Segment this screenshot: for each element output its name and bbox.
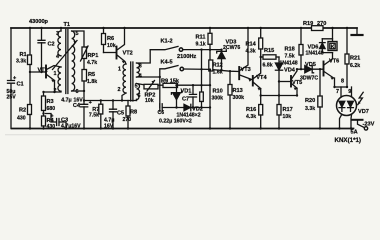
wire VT2 base	[104, 52, 116, 54]
resistor R3	[43, 92, 45, 96]
svg-text:R21: R21	[350, 56, 360, 62]
svg-text:VD7: VD7	[358, 109, 369, 115]
diode VD4	[278, 57, 280, 96]
svg-text:R15: R15	[264, 48, 274, 54]
wire T1 sec bottom	[72, 90, 84, 92]
transformer T1 right winding	[72, 31, 75, 91]
resistor R11 column	[209, 28, 211, 33]
transistor VT5	[290, 76, 292, 87]
top rail	[11, 27, 357, 29]
resistor R14	[260, 28, 262, 38]
svg-text:R6: R6	[107, 36, 114, 42]
resistor R17	[278, 96, 280, 105]
transformer T1 left upper winding	[60, 28, 62, 31]
terminal -23V	[364, 127, 367, 130]
svg-text:7.5k: 7.5k	[89, 113, 99, 119]
capacitor C5	[112, 101, 114, 129]
svg-text:R10: R10	[213, 89, 223, 95]
transistor VT4	[252, 76, 254, 86]
zener VD3	[221, 50, 223, 71]
svg-text:270: 270	[317, 21, 326, 27]
svg-text:VD1: VD1	[181, 89, 192, 95]
transistor VT2	[116, 47, 118, 59]
svg-text:2: 2	[118, 87, 121, 93]
terminal top right	[356, 28, 358, 34]
svg-text:R17: R17	[283, 107, 293, 113]
svg-text:6: 6	[76, 89, 79, 95]
svg-text:KNX(1*1): KNX(1*1)	[335, 137, 361, 144]
svg-text:R2: R2	[19, 108, 26, 114]
svg-text:R13: R13	[233, 88, 243, 94]
resistor R10	[201, 50, 203, 92]
svg-text:0.22μ 160V×2: 0.22μ 160V×2	[159, 118, 192, 124]
svg-text:3.3k: 3.3k	[16, 59, 26, 65]
svg-text:6: 6	[138, 93, 141, 99]
resistor R2	[29, 72, 31, 105]
svg-text:C5: C5	[117, 111, 124, 117]
transformer T1 left lower winding	[58, 67, 61, 91]
capacitor C1	[8, 81, 15, 84]
svg-text:4: 4	[56, 54, 59, 60]
svg-text:C2: C2	[48, 42, 55, 48]
diode VD6	[321, 39, 323, 53]
resistor R5	[82, 70, 87, 82]
transformer T2 lower secondary	[137, 84, 140, 100]
svg-text:9.1k: 9.1k	[196, 42, 206, 48]
svg-text:1: 1	[54, 71, 57, 77]
svg-text:3: 3	[56, 31, 59, 37]
svg-text:-23V: -23V	[363, 122, 375, 128]
transistor VT1	[45, 66, 47, 78]
svg-text:1N4148: 1N4148	[306, 51, 324, 57]
resistor R20	[319, 69, 321, 96]
bottom rail	[12, 128, 354, 130]
svg-text:+: +	[89, 100, 92, 106]
transformer T1 core	[66, 30, 68, 94]
wire VT1 emitter down	[54, 81, 56, 93]
svg-text:VT4: VT4	[256, 75, 267, 81]
svg-text:VD5: VD5	[305, 62, 316, 68]
resistor R16	[260, 96, 262, 105]
svg-text:3: 3	[139, 64, 142, 70]
pin 7 wire	[340, 87, 342, 97]
transformer T2 core	[131, 62, 133, 101]
svg-text:R8: R8	[130, 110, 137, 116]
resistor R6	[103, 28, 105, 34]
svg-text:430: 430	[17, 116, 26, 122]
wire tap4	[137, 76, 160, 78]
svg-text:K1-2: K1-2	[161, 39, 173, 45]
wire emitter bus	[261, 95, 297, 97]
wire R12 column lower	[209, 85, 211, 128]
capacitor C7	[192, 85, 194, 107]
svg-text:VT1: VT1	[38, 68, 48, 74]
svg-text:RP1: RP1	[88, 53, 99, 59]
svg-text:10k: 10k	[145, 98, 154, 104]
svg-text:270: 270	[123, 117, 132, 123]
svg-text:C4: C4	[73, 103, 81, 109]
svg-text:VT6: VT6	[329, 59, 339, 65]
wire T2 primary bottom tap	[122, 93, 126, 101]
wire VD7 to rail right	[350, 115, 353, 129]
svg-text:R20: R20	[305, 98, 315, 104]
resistor R15	[261, 56, 263, 58]
svg-text:K: K	[331, 44, 335, 50]
lightning arrow	[358, 92, 363, 104]
wire C4 bus	[84, 100, 137, 102]
resistor R13	[229, 71, 231, 84]
svg-text:7: 7	[336, 89, 339, 95]
wire node C2 column	[41, 28, 43, 72]
resistor R18	[300, 28, 302, 45]
svg-text:R18: R18	[285, 47, 295, 53]
diode VD2	[184, 104, 190, 110]
svg-text:VD4: VD4	[284, 68, 296, 74]
switch K1-2	[150, 46, 178, 49]
wire VT4 emitter column	[260, 89, 262, 96]
wire T2 tap5 to RP2	[137, 84, 145, 85]
resistor R9	[163, 83, 178, 87]
svg-text:2100Hz: 2100Hz	[177, 54, 196, 60]
switch K4-5	[160, 66, 178, 108]
svg-text:R3: R3	[47, 99, 54, 105]
svg-text:R9 15k: R9 15k	[161, 79, 180, 85]
wire VT5 base	[279, 81, 290, 83]
resistor R7	[100, 101, 102, 105]
svg-text:300k: 300k	[233, 95, 245, 101]
svg-text:7.5k: 7.5k	[285, 54, 295, 60]
svg-text:8: 8	[341, 79, 344, 85]
transistor VT6	[323, 62, 325, 76]
svg-text:R14: R14	[246, 42, 257, 48]
resistor R21	[346, 28, 348, 54]
svg-text:VT2: VT2	[123, 51, 133, 57]
svg-text:R11: R11	[196, 35, 206, 41]
svg-text:T1: T1	[64, 22, 71, 28]
svg-text:R19: R19	[303, 21, 313, 27]
svg-text:430: 430	[47, 124, 56, 130]
svg-text:C6: C6	[158, 110, 165, 116]
svg-text:+: +	[51, 114, 54, 120]
svg-text:3.3k: 3.3k	[305, 106, 315, 112]
resistor R12	[209, 50, 211, 60]
svg-text:5A: 5A	[351, 130, 358, 136]
svg-text:1: 1	[118, 67, 121, 73]
VD7 internal diode 2	[348, 101, 354, 107]
svg-text:5: 5	[135, 84, 138, 90]
VD7 internal diode 1	[339, 101, 345, 107]
svg-text:4.3k: 4.3k	[246, 114, 256, 120]
capacitor C3	[46, 114, 67, 129]
svg-text:R12: R12	[213, 63, 223, 69]
scan artifact line	[5, 134, 310, 136]
wire tap3 to K1-2	[137, 50, 151, 63]
zener VD5	[297, 68, 323, 70]
svg-text:4.7k: 4.7k	[87, 60, 97, 66]
photocoupler VD7 circle	[337, 96, 357, 116]
svg-text:25V: 25V	[7, 95, 17, 101]
capacitor C2	[38, 40, 45, 43]
wire VD7 to rail left	[340, 115, 342, 129]
svg-text:300k: 300k	[212, 96, 224, 102]
potentiometer RP1	[82, 47, 87, 59]
wire VT6 emitter to opto	[334, 78, 336, 87]
svg-text:VT3: VT3	[241, 67, 251, 73]
T1 adjustable-core arrow	[53, 41, 78, 70]
wire VD6 to relay	[322, 39, 332, 53]
svg-text:2CW76: 2CW76	[223, 45, 240, 51]
svg-text:1.8k: 1.8k	[87, 79, 97, 85]
svg-text:43000p: 43000p	[29, 19, 49, 25]
potentiometer RP2	[144, 84, 158, 89]
svg-text:6.2k: 6.2k	[350, 63, 360, 69]
svg-text:C1: C1	[17, 82, 24, 88]
transistor VT3	[238, 67, 240, 79]
capacitor C6	[160, 104, 162, 111]
svg-text:R1: R1	[20, 52, 27, 58]
svg-text:4.3k: 4.3k	[246, 49, 256, 55]
relay K coil	[332, 28, 334, 42]
resistor R1	[29, 28, 31, 55]
svg-text:K4-5: K4-5	[161, 60, 173, 66]
capacitor C4	[83, 101, 85, 129]
wire VT1 base	[30, 71, 45, 73]
svg-text:10k: 10k	[283, 114, 292, 120]
transformer T2 left winding	[123, 64, 126, 93]
transformer T2 upper secondary	[137, 63, 140, 77]
svg-text:5: 5	[76, 31, 79, 37]
svg-text:1N4148: 1N4148	[280, 61, 298, 67]
pin 9 wire	[351, 87, 353, 97]
svg-text:9: 9	[348, 89, 351, 95]
fuse 5A	[353, 119, 363, 121]
svg-text:C7: C7	[182, 97, 189, 103]
svg-text:VD6: VD6	[308, 44, 319, 50]
svg-text:R16: R16	[246, 107, 256, 113]
svg-text:4.7μ: 4.7μ	[61, 98, 71, 104]
resistor R19	[312, 26, 324, 31]
zener VD1	[176, 85, 178, 107]
svg-text:3DW7C: 3DW7C	[300, 75, 318, 81]
left edge wire	[10, 28, 12, 129]
wire bus1	[158, 84, 163, 86]
wire pin bus	[335, 86, 348, 88]
svg-text:10k: 10k	[107, 43, 116, 49]
svg-text:4: 4	[139, 74, 142, 80]
resistor R4	[42, 116, 46, 126]
resistor R8	[127, 101, 129, 107]
wire bus2	[162, 107, 210, 109]
svg-text:6.8k: 6.8k	[263, 63, 273, 69]
wire T1 sec top to RP1	[72, 31, 84, 47]
wire T2 tap6	[136, 99, 138, 100]
svg-text:680: 680	[47, 106, 56, 112]
wire node y92	[44, 91, 62, 93]
svg-text:4.7μ16V: 4.7μ16V	[61, 124, 81, 130]
svg-text:R5: R5	[88, 72, 95, 78]
